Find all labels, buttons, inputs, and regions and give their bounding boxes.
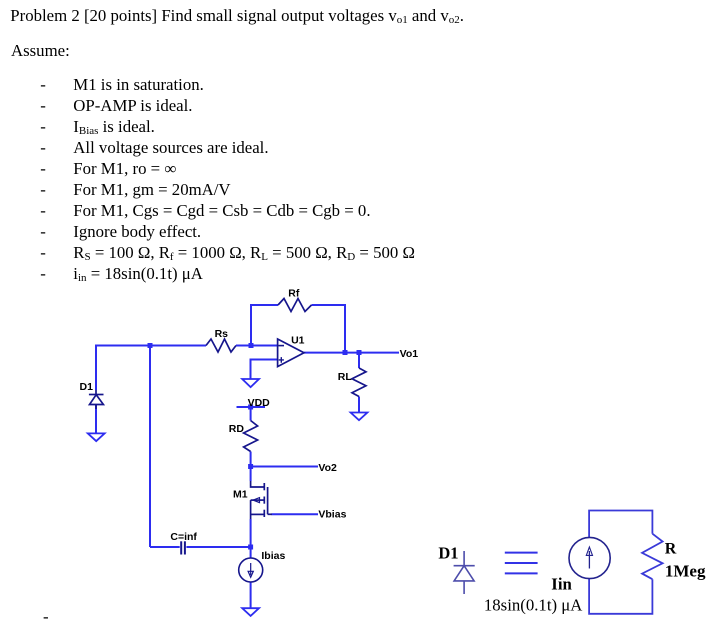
svg-text:Vbias: Vbias bbox=[318, 509, 346, 521]
svg-text:RL: RL bbox=[338, 371, 353, 383]
svg-text:Vo2: Vo2 bbox=[318, 462, 337, 474]
svg-text:VDD: VDD bbox=[248, 397, 271, 409]
svg-text:Ibias: Ibias bbox=[261, 550, 285, 562]
svg-text:Rs: Rs bbox=[215, 328, 229, 340]
svg-text:Vo1: Vo1 bbox=[400, 348, 419, 360]
svg-text:18sin(0.1t) μA: 18sin(0.1t) μA bbox=[484, 595, 583, 614]
svg-text:M1: M1 bbox=[233, 489, 248, 501]
svg-text:D1: D1 bbox=[80, 381, 94, 393]
svg-text:R: R bbox=[665, 541, 677, 558]
svg-text:C=inf: C=inf bbox=[170, 531, 197, 543]
svg-text:RD: RD bbox=[229, 423, 245, 435]
svg-text:U1: U1 bbox=[291, 334, 305, 346]
svg-text:Rf: Rf bbox=[288, 288, 300, 300]
svg-text:D1: D1 bbox=[438, 544, 458, 563]
svg-text:Iin: Iin bbox=[551, 575, 572, 594]
svg-text:1Meg: 1Meg bbox=[665, 561, 706, 580]
